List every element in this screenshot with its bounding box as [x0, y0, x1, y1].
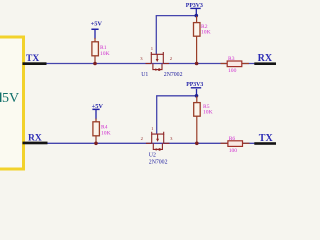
transistor U2 2N7002 [146, 132, 170, 151]
resistor R1 10K [92, 38, 110, 64]
sheet symbol 5V module (yellow block) [0, 37, 24, 169]
svg-text:100: 100 [229, 148, 238, 154]
svg-text:5V: 5V [2, 91, 19, 106]
pin RX (sheet entry, thick black) [23, 142, 48, 145]
junction gate-net / PP3V3 stem (ch2) [195, 94, 199, 98]
junction R4/main wire [94, 142, 98, 146]
body loop below [153, 143, 162, 149]
svg-text:RX: RX [28, 133, 42, 143]
channel arrow (pointing down) [156, 54, 158, 60]
svg-text:10K: 10K [100, 51, 110, 57]
left leg [151, 134, 153, 143]
junction R2/main wire [195, 62, 199, 66]
wire: gate net vertical from U2 top [156, 96, 158, 135]
junction R1/main wire [93, 62, 97, 66]
svg-text:10K: 10K [101, 131, 111, 137]
svg-text:R3: R3 [228, 56, 235, 62]
wire: main horizontal net RX(5V side) to TX(3.3V side), y=143.3 [23, 142, 255, 144]
resistor R4 10K [93, 119, 111, 144]
power PP3V3 (channel 1) [186, 3, 203, 16]
pin stub right (source) [163, 63, 169, 65]
pin stub right (drain) [164, 142, 170, 144]
wire: gate net vertical from U1 top to horizontal run [155, 16, 157, 55]
svg-text:TX: TX [26, 54, 39, 64]
resistor R6 100 (series) [221, 136, 250, 154]
resistor R3 100 (series) [221, 56, 250, 74]
pin TX (sheet entry, thick black) [23, 62, 47, 65]
body diode arrow and dot [155, 68, 158, 71]
svg-text:TX: TX [259, 133, 274, 144]
power +5V (channel 2) [92, 103, 104, 120]
svg-text:10K: 10K [201, 30, 211, 36]
svg-text:10K: 10K [203, 110, 213, 116]
pin stub left (drain) [146, 63, 152, 65]
wire: gate net horizontal run to PP3V3 stem (ch2) [156, 95, 196, 97]
pin TX (right port, thick black) [254, 142, 276, 145]
right leg [162, 54, 164, 63]
resistor R5 10K [194, 96, 213, 143]
gate bar with end ticks [151, 52, 163, 54]
svg-text:2N7002: 2N7002 [164, 72, 183, 78]
power PP3V3 (channel 2) [186, 82, 203, 96]
body diode arrow and dot [156, 148, 159, 151]
pin RX (right port, thick black) [254, 62, 276, 65]
pin stub left (source) [146, 142, 152, 144]
gate bar with end ticks [152, 132, 164, 134]
right leg [163, 134, 165, 143]
power +5V (channel 1) [91, 20, 103, 39]
body loop below [153, 64, 162, 70]
left leg [150, 54, 152, 63]
wire: gate net horizontal run to PP3V3 stem [156, 15, 197, 17]
svg-text:R6: R6 [229, 136, 236, 142]
channel arrow (pointing down) [157, 134, 159, 140]
junction gate-net / PP3V3 stem [195, 14, 199, 18]
wire: main horizontal net TX(5V side) to RX(3.3V side), y=63.5 [23, 63, 255, 65]
svg-text:RX: RX [258, 53, 273, 64]
svg-text:2N7002: 2N7002 [149, 160, 168, 166]
svg-text:+5V: +5V [91, 20, 103, 27]
svg-text:U2: U2 [149, 153, 156, 159]
resistor R2 10K [194, 16, 211, 64]
svg-text:U1: U1 [141, 72, 148, 78]
svg-text:100: 100 [228, 68, 237, 74]
transistor U1 2N7002 [146, 52, 170, 71]
junction R5/main wire [195, 142, 199, 146]
